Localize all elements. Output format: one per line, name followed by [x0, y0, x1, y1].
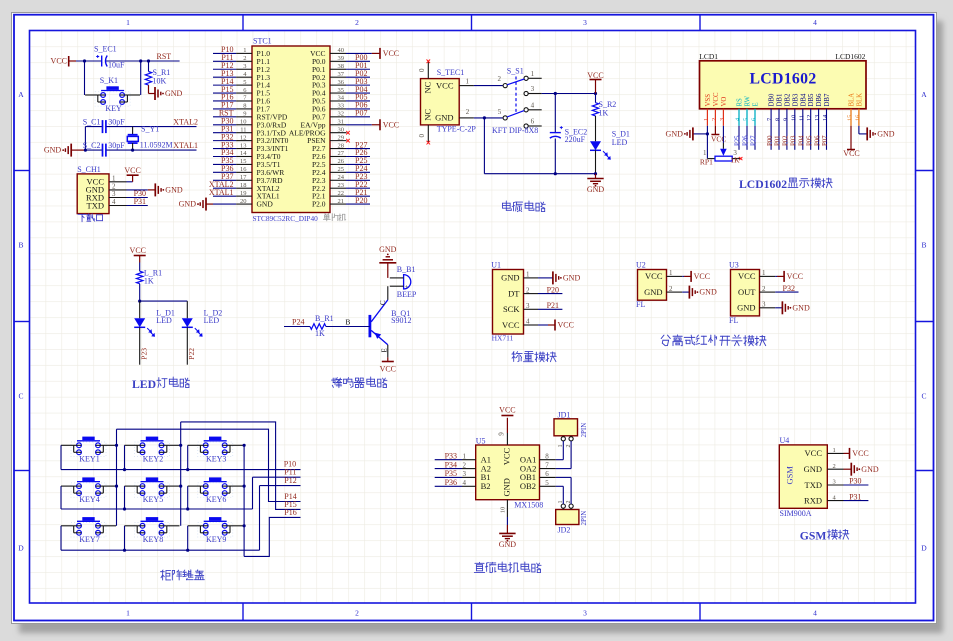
svg-text:1: 1: [531, 70, 535, 78]
svg-text:DB0: DB0: [769, 93, 776, 106]
svg-text:1: 1: [703, 118, 710, 121]
svg-text:GND: GND: [165, 186, 183, 195]
svg-text:RST: RST: [157, 52, 172, 61]
svg-text:KEY1: KEY1: [79, 454, 99, 463]
svg-text:B_B1: B_B1: [397, 265, 416, 274]
svg-text:XTAL1: XTAL1: [173, 141, 198, 150]
svg-text:P26: P26: [743, 135, 750, 146]
svg-text:P12: P12: [284, 476, 296, 485]
svg-text:16: 16: [854, 115, 861, 121]
svg-text:2: 2: [355, 18, 359, 27]
svg-text:1K: 1K: [144, 277, 154, 286]
svg-text:VCC: VCC: [694, 272, 710, 281]
svg-text:RXD: RXD: [804, 495, 822, 505]
svg-text:P02: P02: [783, 135, 790, 146]
svg-text:P31: P31: [849, 492, 861, 501]
svg-text:DB5: DB5: [808, 93, 815, 106]
svg-text:GND: GND: [587, 185, 605, 194]
svg-text:VCC: VCC: [380, 365, 396, 374]
svg-text:KEY4: KEY4: [79, 495, 99, 504]
svg-text:P07: P07: [822, 135, 829, 146]
svg-text:U1: U1: [491, 261, 501, 270]
svg-text:P20: P20: [355, 196, 367, 205]
svg-text:VCC: VCC: [711, 134, 726, 143]
svg-text:VCC: VCC: [843, 149, 859, 158]
svg-text:U3: U3: [729, 261, 739, 270]
svg-text:6: 6: [531, 118, 535, 126]
svg-text:P16: P16: [284, 508, 296, 517]
svg-text:VCC: VCC: [383, 120, 399, 129]
svg-text:VCC: VCC: [852, 449, 868, 458]
svg-text:P27: P27: [751, 135, 758, 146]
svg-text:6: 6: [751, 118, 758, 121]
svg-text:TXD: TXD: [87, 200, 104, 210]
svg-text:0: 0: [418, 68, 426, 72]
svg-text:8: 8: [775, 118, 782, 121]
svg-text:P05: P05: [806, 135, 813, 146]
svg-text:GND: GND: [179, 200, 197, 209]
svg-text:D: D: [18, 544, 24, 553]
svg-text:1: 1: [703, 149, 707, 157]
svg-text:5: 5: [743, 118, 750, 121]
svg-text:4: 4: [813, 18, 817, 27]
svg-text:VCC: VCC: [713, 92, 720, 106]
svg-text:JD2: JD2: [558, 526, 571, 535]
svg-text:S_TEC1: S_TEC1: [437, 68, 465, 77]
svg-text:VCC: VCC: [805, 448, 823, 458]
svg-text:XTAL1: XTAL1: [209, 188, 234, 197]
svg-text:LED: LED: [132, 378, 156, 391]
svg-text:VCC: VCC: [738, 271, 756, 281]
svg-text:15: 15: [847, 115, 854, 121]
svg-text:KEY3: KEY3: [206, 454, 226, 463]
svg-text:2: 2: [711, 118, 718, 121]
svg-text:P30: P30: [849, 477, 861, 486]
svg-text:LED: LED: [204, 316, 220, 325]
svg-text:OB2: OB2: [520, 481, 536, 491]
svg-text:P04: P04: [799, 135, 806, 146]
svg-text:VCC: VCC: [645, 271, 663, 281]
svg-text:LCD1602: LCD1602: [749, 71, 816, 88]
svg-text:S_S1: S_S1: [507, 67, 524, 76]
svg-text:1: 1: [126, 18, 130, 27]
svg-text:GND: GND: [861, 465, 879, 474]
svg-text:2PIN: 2PIN: [580, 423, 588, 438]
svg-text:P33: P33: [445, 451, 457, 460]
svg-text:1: 1: [466, 78, 470, 86]
svg-text:1K: 1K: [599, 109, 609, 118]
svg-text:P22: P22: [187, 348, 196, 360]
svg-text:P2.0: P2.0: [312, 200, 326, 209]
svg-text:3: 3: [583, 18, 587, 27]
svg-text:VCC: VCC: [502, 447, 512, 465]
svg-text:LCD1602: LCD1602: [739, 178, 787, 191]
svg-text:VCC: VCC: [436, 80, 454, 90]
svg-text:4: 4: [531, 102, 535, 110]
svg-text:TXD: TXD: [805, 480, 822, 490]
svg-text:2PIN: 2PIN: [580, 511, 588, 526]
svg-text:A: A: [921, 90, 927, 99]
svg-text:VCC: VCC: [51, 57, 67, 66]
svg-text:OUT: OUT: [738, 287, 756, 297]
svg-text:P23: P23: [140, 348, 149, 360]
svg-text:GND: GND: [435, 112, 453, 122]
svg-text:S_CH1: S_CH1: [77, 165, 101, 174]
svg-text:GSM: GSM: [785, 466, 795, 485]
svg-text:JD1: JD1: [558, 410, 571, 419]
svg-text:14: 14: [822, 114, 829, 121]
svg-text:GND: GND: [699, 288, 717, 297]
svg-text:NC: NC: [423, 109, 433, 121]
svg-text:B: B: [345, 317, 350, 326]
svg-text:P35: P35: [445, 469, 457, 478]
svg-text:VCC: VCC: [587, 71, 603, 80]
svg-text:3: 3: [531, 85, 535, 93]
svg-text:DB1: DB1: [777, 94, 784, 107]
svg-text:B2: B2: [481, 481, 491, 491]
svg-text:BLA: BLA: [849, 93, 856, 107]
svg-text:VSS: VSS: [705, 94, 712, 107]
svg-text:KEY7: KEY7: [79, 535, 99, 544]
svg-text:NC: NC: [423, 81, 433, 93]
svg-text:HX711: HX711: [492, 334, 514, 343]
svg-text:DT: DT: [508, 288, 520, 298]
svg-text:VCC: VCC: [130, 246, 146, 255]
svg-text:U4: U4: [780, 436, 790, 445]
svg-text:2: 2: [355, 609, 359, 618]
svg-text:9: 9: [782, 118, 789, 121]
svg-text:VCC: VCC: [558, 321, 574, 330]
svg-text:P21: P21: [547, 301, 559, 310]
svg-text:LCD1: LCD1: [699, 52, 718, 61]
svg-text:U2: U2: [636, 261, 646, 270]
svg-text:VCC: VCC: [383, 49, 399, 58]
svg-text:B_R1: B_R1: [315, 314, 334, 323]
svg-text:GND: GND: [501, 273, 519, 283]
svg-text:C: C: [379, 300, 387, 305]
svg-text:TYPE-C-2P: TYPE-C-2P: [437, 124, 477, 133]
svg-text:KEY8: KEY8: [143, 535, 163, 544]
svg-text:5: 5: [498, 108, 502, 116]
svg-text:10: 10: [790, 115, 797, 121]
svg-text:MX1508: MX1508: [514, 501, 543, 510]
svg-text:3: 3: [583, 609, 587, 618]
svg-text:P00: P00: [767, 135, 774, 146]
svg-text:LED: LED: [612, 138, 628, 147]
svg-text:P25: P25: [735, 135, 742, 146]
svg-text:RW: RW: [745, 95, 752, 106]
svg-text:P34: P34: [445, 460, 457, 469]
svg-text:P36: P36: [445, 478, 457, 487]
svg-text:0: 0: [418, 134, 426, 138]
svg-text:B: B: [18, 241, 23, 250]
svg-text:GND: GND: [563, 274, 581, 283]
svg-text:DB3: DB3: [792, 93, 799, 106]
svg-text:10K: 10K: [153, 77, 167, 86]
svg-text:LCD1602: LCD1602: [835, 52, 865, 61]
svg-text:KEY2: KEY2: [143, 454, 163, 463]
svg-text:S_C1: S_C1: [83, 117, 101, 126]
svg-text:P31: P31: [134, 197, 146, 206]
svg-text:U5: U5: [476, 437, 486, 446]
svg-text:VCC: VCC: [502, 320, 520, 330]
svg-text:P32: P32: [783, 284, 795, 293]
svg-text:STC89C52RC_DIP40: STC89C52RC_DIP40: [253, 214, 319, 223]
svg-text:P03: P03: [791, 135, 798, 146]
svg-text:STC1: STC1: [253, 37, 272, 46]
svg-text:DB2: DB2: [784, 93, 791, 106]
svg-text:S_C2: S_C2: [83, 141, 101, 150]
svg-text:DB7: DB7: [824, 93, 831, 106]
svg-text:BLK: BLK: [856, 93, 863, 107]
svg-text:30pF: 30pF: [108, 117, 125, 126]
svg-text:2: 2: [466, 108, 470, 116]
svg-text:VCC: VCC: [499, 405, 515, 414]
svg-text:DB4: DB4: [800, 93, 807, 106]
svg-text:S9012: S9012: [391, 316, 411, 325]
svg-text:VCC: VCC: [787, 272, 803, 281]
svg-text:4: 4: [813, 609, 817, 618]
svg-text:GND: GND: [792, 303, 810, 312]
svg-text:E: E: [753, 102, 760, 106]
svg-text:GND: GND: [502, 478, 512, 496]
svg-text:S_EC1: S_EC1: [94, 45, 117, 54]
svg-text:GND: GND: [257, 200, 274, 209]
svg-text:P06: P06: [814, 135, 821, 146]
svg-text:S_K1: S_K1: [100, 76, 118, 85]
svg-text:11: 11: [798, 115, 805, 121]
svg-text:12: 12: [806, 115, 813, 121]
svg-text:7: 7: [767, 118, 774, 121]
svg-text:C: C: [18, 392, 23, 401]
svg-text:30pF: 30pF: [108, 141, 125, 150]
svg-text:3: 3: [719, 118, 726, 121]
svg-text:GND: GND: [44, 146, 62, 155]
svg-text:10uF: 10uF: [108, 61, 125, 70]
svg-text:KEY5: KEY5: [143, 495, 163, 504]
svg-text:S_Y1: S_Y1: [141, 125, 159, 134]
svg-text:VO: VO: [721, 97, 728, 107]
svg-text:1K: 1K: [730, 155, 740, 164]
svg-text:A: A: [18, 90, 24, 99]
svg-text:GND: GND: [165, 89, 183, 98]
svg-text:13: 13: [814, 115, 821, 121]
svg-text:FL: FL: [636, 300, 645, 309]
svg-text:220uF: 220uF: [565, 135, 586, 144]
svg-text:KEY: KEY: [105, 104, 122, 113]
svg-text:GND: GND: [877, 130, 895, 139]
svg-text:VCC: VCC: [124, 166, 140, 175]
svg-text:B: B: [921, 241, 926, 250]
svg-text:C: C: [921, 392, 926, 401]
svg-text:1: 1: [126, 609, 130, 618]
svg-text:P07: P07: [355, 109, 367, 118]
svg-text:XTAL2: XTAL2: [173, 117, 198, 126]
svg-text:GND: GND: [804, 464, 822, 474]
svg-text:KFT DIP-8X8: KFT DIP-8X8: [492, 126, 538, 135]
svg-text:RS: RS: [737, 98, 744, 107]
svg-text:P01: P01: [775, 135, 782, 146]
svg-text:BEEP: BEEP: [397, 290, 417, 299]
svg-text:11.0592M: 11.0592M: [140, 140, 173, 149]
svg-text:P24: P24: [292, 317, 304, 326]
svg-text:1K: 1K: [315, 329, 325, 338]
svg-text:2: 2: [498, 75, 502, 83]
svg-text:KEY9: KEY9: [206, 535, 226, 544]
svg-text:GND: GND: [737, 303, 755, 313]
svg-text:GSM: GSM: [800, 530, 827, 543]
svg-text:10: 10: [500, 507, 507, 514]
svg-text:SIM900A: SIM900A: [780, 509, 812, 518]
svg-text:RP1: RP1: [700, 158, 713, 167]
svg-text:9: 9: [498, 432, 506, 436]
svg-text:DB6: DB6: [816, 93, 823, 106]
svg-text:SCK: SCK: [503, 304, 520, 314]
svg-text:GND: GND: [644, 287, 662, 297]
svg-text:FL: FL: [729, 316, 738, 325]
svg-text:GND: GND: [379, 245, 397, 254]
svg-text:GND: GND: [499, 540, 517, 549]
svg-text:D: D: [921, 544, 927, 553]
svg-text:LED: LED: [156, 316, 172, 325]
svg-text:KEY6: KEY6: [206, 495, 226, 504]
svg-text:GND: GND: [666, 130, 684, 139]
svg-text:P20: P20: [547, 285, 559, 294]
